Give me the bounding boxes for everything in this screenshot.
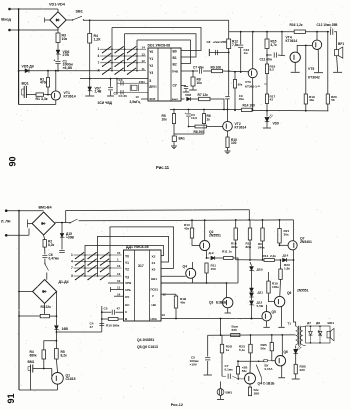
svg-text:1м: 1м <box>244 51 249 55</box>
wire rail corner down <box>228 20 230 39</box>
wire R14 line <box>236 259 264 261</box>
svg-text:15: 15 <box>117 251 121 255</box>
svg-text:95к: 95к <box>238 83 243 87</box>
ground BA1 <box>173 142 175 146</box>
wire D14 to Q7 column <box>287 259 294 261</box>
svg-text:Рис.11: Рис.11 <box>156 165 170 170</box>
resistor R11 1k <box>224 257 234 260</box>
wire line bottom <box>6 234 29 236</box>
resistor R24 56k <box>237 361 239 366</box>
wire R4 down to bus <box>89 43 91 79</box>
resistor R14 2.2k <box>264 259 275 262</box>
wire R18 to R17 node <box>266 74 268 94</box>
resistor R19 100k <box>268 272 270 281</box>
resistor R15 <box>266 32 268 39</box>
wire R3 line <box>19 315 40 317</box>
svg-text:22к: 22к <box>46 305 52 309</box>
svg-text:ВМ1: ВМ1 <box>28 360 35 364</box>
resistor R5 8.2k <box>55 349 59 360</box>
svg-text:VD1-VD4: VD1-VD4 <box>49 3 66 7</box>
svg-text:11: 11 <box>142 67 146 71</box>
svg-text:Х2: Х2 <box>152 255 156 259</box>
wire VT4 collector to VT5 base <box>297 45 312 52</box>
svg-text:–к: –к <box>257 84 261 88</box>
switch SA2 <box>44 259 46 264</box>
svg-text:Д14: Д14 <box>283 253 289 257</box>
svg-text:1,2К: 1,2К <box>94 37 102 41</box>
capacitor C5 <box>188 110 190 114</box>
svg-text:В1: В1 <box>173 56 177 60</box>
svg-text:VD5 Д9: VD5 Д9 <box>22 65 34 69</box>
svg-text:С3: С3 <box>119 78 123 82</box>
speaker BF1 <box>335 50 339 56</box>
transistor VT3 <box>248 69 257 78</box>
wire R22 to Q4b collector <box>249 353 252 373</box>
ground Q6b <box>278 377 285 379</box>
wire Q1 base lead <box>51 369 53 377</box>
svg-text:Л. ЛН: Л. ЛН <box>1 220 11 224</box>
capacitor C4 <box>117 91 148 93</box>
resistor R24 180 <box>248 387 251 396</box>
svg-text:С7 40н: С7 40н <box>193 66 204 70</box>
svg-text:10к: 10к <box>197 81 203 85</box>
switch SA1 fig12 <box>69 222 70 223</box>
wire R7 to bus <box>210 99 224 110</box>
wire R5 to Q1 collector <box>56 359 57 372</box>
wire bridge left stub <box>45 19 50 21</box>
svg-text:1В0: 1В0 <box>254 392 260 396</box>
wire rail2 <box>79 219 294 222</box>
wire bridge1 left stub <box>28 223 33 225</box>
wire caps column to D16 node <box>56 331 101 333</box>
svg-text:Q4 2N3551: Q4 2N3551 <box>137 338 154 342</box>
svg-text:Y2: Y2 <box>149 64 153 68</box>
IC DD1 UMS8 fig12 <box>124 250 162 321</box>
capacitor C9 <box>225 96 230 98</box>
wire R11b down <box>206 273 208 283</box>
svg-text:680к: 680к <box>30 353 37 357</box>
wire rail1 corner down <box>248 210 250 220</box>
svg-text:1к: 1к <box>226 348 230 352</box>
svg-text:ПЧВ: ПЧВ <box>172 70 179 74</box>
svg-text:ПСВ1: ПСВ1 <box>151 288 159 292</box>
svg-text:150: 150 <box>211 267 216 271</box>
wire VT2 collector <box>227 110 229 122</box>
resistor R12 82k <box>249 220 251 228</box>
svg-text:ЗСИ: ЗСИ <box>149 97 155 101</box>
wire R25 to Q6b base <box>272 351 276 361</box>
wire VT3 emitter to bus <box>252 78 254 111</box>
wire R14 to D14 <box>275 259 282 261</box>
svg-text:R14 100: R14 100 <box>243 104 255 108</box>
wire R22 column <box>250 335 252 344</box>
transformer T1 secondary <box>300 326 302 344</box>
wire R9 to VT3 base <box>223 70 249 73</box>
resistor R25 56k <box>271 335 273 343</box>
wire Q6b collector to bus <box>281 335 283 356</box>
svg-text:8,2к: 8,2к <box>48 243 55 247</box>
wire left rail vertical <box>18 9 20 105</box>
diode D7 <box>310 326 312 331</box>
svg-text:220: 220 <box>300 368 305 372</box>
svg-text:КТ361-1: КТ361-1 <box>245 85 257 89</box>
wire R17 to bus <box>266 104 268 111</box>
svg-text:КТ3614: КТ3614 <box>64 94 76 98</box>
resistor R19 <box>305 45 307 94</box>
ground D15 <box>59 249 65 251</box>
wire VD6 to C1 <box>57 54 59 61</box>
transformer T1 primary <box>296 326 298 344</box>
zener D15 <box>61 223 63 233</box>
wire lower bus y109.5-111 <box>170 109 242 111</box>
svg-text:Y2: Y2 <box>125 268 129 272</box>
svg-text:91: 91 <box>6 393 16 403</box>
capacitor C5 47 <box>111 310 113 315</box>
svg-text:56к: 56к <box>261 346 266 350</box>
svg-text:300к: 300к <box>231 245 238 249</box>
wire R18 down <box>175 308 177 319</box>
wire R19 to Q6 base <box>269 293 275 302</box>
ground VT4 <box>291 71 300 73</box>
resistor R16 <box>294 30 305 33</box>
wire Q1 emitter <box>57 384 59 390</box>
wire VT4 emitter to ground <box>294 63 296 72</box>
wire pin13 long line <box>161 318 262 320</box>
transistor Q2 <box>200 241 210 251</box>
svg-text:13: 13 <box>162 313 166 317</box>
wire left caps column <box>101 306 103 332</box>
svg-text:ВМ1-В4: ВМ1-В4 <box>39 205 52 209</box>
capacitor C5 100uF <box>207 335 209 356</box>
svg-text:8,2: 8,2 <box>270 68 275 72</box>
svg-text:R8 200: R8 200 <box>194 130 205 134</box>
svg-text:×6,3В: ×6,3В <box>63 66 73 70</box>
resistor R14 <box>242 108 253 111</box>
diode VD8 <box>187 97 191 101</box>
svg-text:Q6: Q6 <box>284 350 289 354</box>
svg-text:2N5401: 2N5401 <box>300 240 312 244</box>
svg-text:47: 47 <box>117 307 121 311</box>
svg-text:13: 13 <box>117 264 121 268</box>
wire bridge bottom to R3 <box>57 30 59 34</box>
svg-text:VT3: VT3 <box>245 80 251 84</box>
wire Q6b emitter ground <box>281 366 283 378</box>
zener D12 5.5V <box>251 297 253 300</box>
wire D12 down <box>251 305 253 319</box>
wire Q2 emitter <box>205 250 207 258</box>
svg-text:27В: 27В <box>63 53 70 57</box>
bridge rectifier D1-D4 <box>33 280 57 304</box>
resistor R17 <box>265 94 268 104</box>
wire to zener D16 <box>55 316 57 325</box>
resistor R10 <box>226 137 229 148</box>
resistor R20 <box>327 32 329 94</box>
resistor R2 <box>43 240 46 248</box>
wire lower link y283 <box>161 282 238 284</box>
svg-text:0,15А: 0,15А <box>265 367 274 371</box>
svg-text:Q5: Q5 <box>272 310 277 314</box>
svg-text:У: У <box>152 294 154 298</box>
resistor R8s 200 <box>195 125 207 128</box>
svg-text:43: 43 <box>270 98 274 102</box>
wire diode line y258 <box>207 257 210 259</box>
wire VT5 collector to rail <box>316 32 318 40</box>
wire pin12 line <box>161 293 176 295</box>
transistor Q6 <box>274 296 284 306</box>
wire R20 down <box>221 353 223 376</box>
wire R16 to C12 <box>306 31 330 33</box>
svg-text:Y0: Y0 <box>125 255 129 259</box>
wire pin 11 stub <box>111 289 124 291</box>
svg-text:КТ3042: КТ3042 <box>308 76 320 80</box>
resistor R8 10k <box>192 71 194 77</box>
wire R21 to Q7 base <box>279 243 281 245</box>
wire bridge1 bottom <box>44 235 45 239</box>
wire crystal branch <box>116 79 118 93</box>
svg-text:1: 1 <box>71 253 73 257</box>
svg-text:0,47мк: 0,47мк <box>49 256 60 260</box>
resistor R2 470k <box>46 78 49 88</box>
wire bridge2 right down <box>55 292 57 317</box>
capacitor C1 <box>55 60 60 62</box>
wire lower bus y334.9 <box>208 334 296 336</box>
capacitor C6 <box>110 79 112 87</box>
svg-text:З17: З17 <box>138 264 144 268</box>
zener D15b <box>250 262 252 266</box>
wire x282 vertical <box>281 32 283 55</box>
ground VD7 <box>85 95 94 97</box>
svg-text:ЗСИ ЧВД: ЗСИ ЧВД <box>98 101 113 105</box>
wire Q4b emitter <box>249 384 251 387</box>
resistor R12 <box>227 39 231 49</box>
wire C12 to speaker <box>334 32 336 50</box>
wire tone line y361 <box>238 360 264 362</box>
wire mid horizontal y71 <box>19 70 100 72</box>
wire keypad f12 column3 <box>110 227 174 276</box>
wire Q4 collector <box>192 262 194 269</box>
wire VT1 collector <box>55 71 57 91</box>
resistor R5 <box>173 110 175 114</box>
diode D8 <box>319 326 321 331</box>
bridge rectifier VD1-VD4 <box>50 12 66 28</box>
svg-text:Х1: Х1 <box>152 261 156 265</box>
svg-text:R3: R3 <box>41 305 45 309</box>
svg-text:30к: 30к <box>284 232 289 236</box>
svg-text:SB1: SB1 <box>76 10 83 14</box>
transistor Q7 <box>288 241 297 250</box>
wire R23 to Q6 collector <box>279 279 282 296</box>
wire vyh line to Q3 <box>161 283 226 298</box>
svg-text:Д-9: Д-9 <box>209 251 214 255</box>
wire Q5 collector <box>266 305 268 312</box>
svg-text:40н: 40н <box>239 97 244 101</box>
svg-text:1: 1 <box>98 47 100 51</box>
svg-text:10к: 10к <box>162 117 168 121</box>
svg-text:1РБ: 1РБ <box>125 288 132 292</box>
wire Q4 emitter <box>192 278 194 283</box>
svg-text:Вход: Вход <box>1 17 11 22</box>
svg-text:+: + <box>185 111 187 115</box>
resistor R21 30k <box>279 220 281 229</box>
capacitor C4 47 <box>99 322 104 324</box>
ground R10 <box>227 148 229 151</box>
diode D14 <box>283 258 287 262</box>
wire Q7 column to transformer <box>294 260 296 326</box>
capacitor C11 <box>267 54 272 56</box>
svg-text:10: 10 <box>117 279 121 283</box>
svg-text:470к: 470к <box>40 81 47 85</box>
svg-text:Y1: Y1 <box>125 261 129 265</box>
svg-text:С4 30: С4 30 <box>119 94 128 98</box>
diode VD5 <box>25 69 29 73</box>
svg-text:Q4 С-1В1Б: Q4 С-1В1Б <box>258 382 276 386</box>
transistor Q6b <box>275 356 285 366</box>
svg-text:R16 1,2к: R16 1,2к <box>290 23 303 27</box>
svg-text:10к: 10к <box>62 37 68 41</box>
svg-text:НВ1: НВ1 <box>151 277 157 281</box>
svg-text:ЧРВ: ЧРВ <box>125 281 132 285</box>
capacitor C6 0.47 <box>42 254 47 256</box>
svg-text:R1 3,3к: R1 3,3к <box>36 97 48 101</box>
box rectifier D7 D8 BF1 <box>306 326 331 343</box>
svg-text:+2мк×25В: +2мк×25В <box>213 40 227 44</box>
svg-text:2,4В: 2,4В <box>95 90 103 94</box>
wire base line y126.5 <box>189 126 196 128</box>
resistor R6 <box>203 110 205 114</box>
svg-text:7: 7 <box>98 61 100 65</box>
resistor R3 22k <box>40 314 49 317</box>
svg-text:16В: 16В <box>62 327 69 331</box>
svg-text:R10 390к: R10 390к <box>106 324 120 328</box>
svg-text:2N5551: 2N5551 <box>297 289 309 293</box>
transistor Q5 <box>262 312 271 321</box>
svg-text:КТ3614: КТ3614 <box>235 125 247 129</box>
svg-text:С12 10мк 25В: С12 10мк 25В <box>317 23 339 27</box>
wire R1 to VT1 base <box>44 94 52 96</box>
svg-text:С11 40н: С11 40н <box>260 57 272 61</box>
svg-text:8,2к: 8,2к <box>61 353 68 357</box>
svg-text:С8: С8 <box>207 40 211 44</box>
wire VT3 collector from rail <box>252 32 254 69</box>
resistor R9 <box>212 69 223 72</box>
svg-text:12: 12 <box>117 272 121 276</box>
svg-text:VT5: VT5 <box>308 67 314 71</box>
svg-text:НС: НС <box>125 303 130 307</box>
wire supply bus y78.6 <box>80 78 148 80</box>
capacitor SU pin <box>182 85 187 87</box>
wire branch to R4 <box>44 341 57 350</box>
svg-text:1к: 1к <box>229 250 233 254</box>
wire input top to bridge <box>10 8 59 10</box>
wire Q4 base <box>161 275 186 277</box>
fuse F1 0.15A <box>263 360 265 363</box>
svg-text:ZQ1: ZQ1 <box>139 80 145 84</box>
pin stub ZSI <box>141 98 148 100</box>
wire VT2 emitter <box>227 131 229 137</box>
svg-text:240к: 240к <box>258 245 265 249</box>
resistor R3 <box>56 33 60 43</box>
wire VT5 emitter to ground <box>317 49 319 72</box>
wire bridge1 out to rails <box>55 221 70 224</box>
wire R8s to VT2 base <box>207 126 224 128</box>
svg-text:4: 4 <box>71 260 73 264</box>
wire C-pin cap line <box>102 311 111 313</box>
wire R2 to C6 <box>44 247 46 254</box>
transistor VT5 <box>312 40 321 49</box>
svg-text:Рис.12: Рис.12 <box>171 403 183 407</box>
wire BM1b bottom <box>220 395 222 399</box>
svg-text:100к: 100к <box>272 285 279 289</box>
node input terminal XS1 bottom <box>8 29 11 32</box>
svg-text:47: 47 <box>90 325 94 329</box>
wire secondary to box <box>303 325 306 327</box>
wire DD1 vyh output <box>182 98 185 100</box>
wire R4 from rail <box>89 20 91 33</box>
svg-text:7,5к: 7,5к <box>232 43 239 47</box>
LED D16b <box>294 349 298 353</box>
wire bottom left <box>19 104 56 106</box>
transistor Q3 <box>223 297 233 307</box>
svg-text:Д7: Д7 <box>307 321 311 325</box>
wire rail2 corner to Q7 <box>293 220 295 241</box>
svg-text:4,7к: 4,7к <box>271 43 278 47</box>
transistor Q4b <box>245 373 256 384</box>
microphone BQ1 <box>23 86 25 98</box>
resistor R7 <box>199 97 211 100</box>
wire R26 ground <box>295 374 297 379</box>
svg-text:3,5мГц: 3,5мГц <box>130 100 141 104</box>
wire keypad f12 column2 <box>98 236 169 276</box>
svg-text:ДД1 УМС8-08: ДД1 УМС8-08 <box>126 245 149 249</box>
svg-text:×10V: ×10V <box>190 363 198 367</box>
svg-text:2,2к: 2,2к <box>270 254 276 258</box>
svg-text:Y0: Y0 <box>149 50 153 54</box>
crystal ZQ1 <box>132 85 138 90</box>
svg-text:Д1-Д4: Д1-Д4 <box>59 280 69 284</box>
wire C9 to bus <box>227 99 229 110</box>
wire bottom fig12 <box>19 389 58 391</box>
wire rail1 riser <box>66 210 250 223</box>
svg-text:В0: В0 <box>173 50 177 54</box>
wire D16 down <box>55 330 57 349</box>
zener diode VD6 <box>56 50 60 54</box>
svg-text:1к: 1к <box>207 117 211 121</box>
wire R13 to Q2 base <box>192 238 200 246</box>
wire R6 bottom to ground <box>174 133 204 135</box>
wire R11 right <box>233 258 238 283</box>
wire pin 10 stub <box>108 282 124 284</box>
wire C1 to VD5 line <box>57 64 59 71</box>
svg-text:56к: 56к <box>242 369 247 373</box>
wire primary bottom to LED <box>295 346 297 349</box>
svg-text:5,5В: 5,5В <box>257 304 264 308</box>
svg-text:BQ1: BQ1 <box>22 82 29 86</box>
svg-text:З: З <box>149 79 151 83</box>
IC DD1 UMS8 <box>148 48 181 101</box>
svg-text:10: 10 <box>136 95 140 99</box>
wire BM1b top <box>220 382 222 389</box>
resistor R17 630 <box>231 333 240 336</box>
wire Q2 collector <box>204 220 206 240</box>
svg-text:Q6: Q6 <box>287 291 292 295</box>
wire input bottom <box>10 29 59 31</box>
node line terminal bottom <box>5 234 8 237</box>
ground VD9 <box>263 127 271 129</box>
node input terminal XS1 top <box>8 8 11 11</box>
wire second rail y31.7 <box>229 31 295 33</box>
wire R4 to base node <box>43 359 45 369</box>
resistor R1 <box>36 93 44 96</box>
